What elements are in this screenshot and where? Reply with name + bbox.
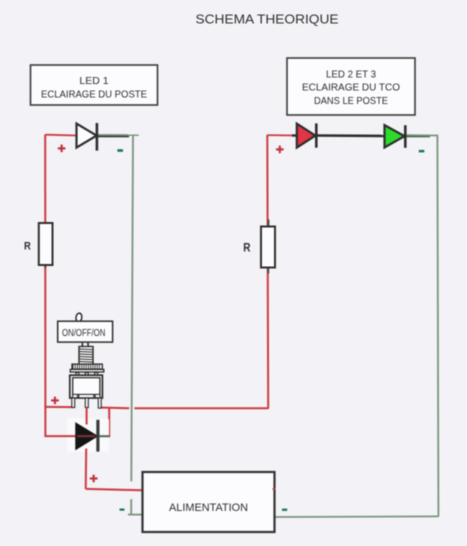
svg-text:LED 2 ET 3: LED 2 ET 3	[326, 69, 376, 81]
svg-text:SCHEMA THEORIQUE: SCHEMA THEORIQUE	[196, 11, 339, 26]
svg-text:R: R	[24, 241, 31, 253]
svg-text:ON/OFF/ON: ON/OFF/ON	[62, 328, 105, 339]
svg-text:R: R	[243, 242, 251, 254]
svg-text:ALIMENTATION: ALIMENTATION	[169, 502, 248, 514]
svg-text:LED 1: LED 1	[79, 75, 108, 87]
svg-text:ECLAIRAGE DU TCO: ECLAIRAGE DU TCO	[302, 81, 400, 93]
svg-text:DANS LE POSTE: DANS LE POSTE	[314, 95, 388, 107]
svg-text:ECLAIRAGE DU POSTE: ECLAIRAGE DU POSTE	[41, 88, 147, 100]
